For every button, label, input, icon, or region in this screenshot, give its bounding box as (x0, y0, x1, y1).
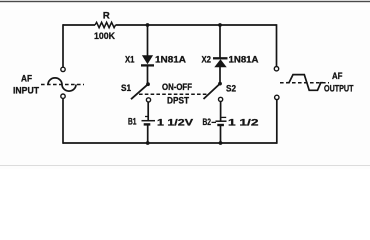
svg-text:S2: S2 (226, 84, 236, 95)
svg-text:INPUT: INPUT (13, 86, 39, 97)
mechanical linkage dashed line DPST (139, 93, 208, 95)
switch S1 arm (131, 84, 148, 99)
input sine waveform (48, 78, 76, 91)
output signal axis dashed line (280, 82, 329, 84)
input terminal top (61, 67, 65, 71)
wire left vertical from top rail to input terminal (62, 24, 64, 67)
svg-text:1 1/2V: 1 1/2V (157, 118, 194, 129)
diode X1 (cathode down) (142, 55, 153, 64)
battery B2 negative plate (217, 124, 224, 126)
junction node at B2 / bottom rail (219, 141, 223, 145)
switch S2 pivot dot (218, 82, 222, 86)
svg-text:X2: X2 (202, 55, 212, 66)
svg-text:R: R (103, 11, 110, 22)
wire from B2 to bottom rail (220, 125, 222, 143)
wire right vertical from output terminal to bottom rail (276, 100, 278, 144)
junction node at R / X1 (146, 23, 150, 27)
wire from X2 anode to switch S2 (219, 67, 221, 83)
svg-text:S1: S1 (121, 83, 132, 94)
wire X1 branch from top rail to diode (147, 25, 149, 56)
wire X2 branch from top rail to diode (219, 25, 221, 58)
svg-text:AF: AF (21, 74, 32, 85)
wire from B1 to bottom rail (147, 124, 149, 143)
battery B1 positive plate (142, 120, 156, 122)
battery B2 polarity plus tick (221, 116, 226, 118)
switch S1 pivot dot (146, 82, 150, 86)
switch S2 arm (204, 84, 221, 99)
wire from X1 cathode to switch S1 (147, 65, 149, 83)
svg-text:1 1/2: 1 1/2 (228, 118, 259, 129)
svg-text:1N81A: 1N81A (229, 55, 259, 66)
input signal axis dashed line (41, 84, 84, 86)
wire right vertical from top rail to output terminal (276, 24, 278, 66)
output terminal top (274, 67, 278, 71)
svg-text:ON-OFF: ON-OFF (162, 82, 192, 93)
wire top rail left segment (63, 24, 95, 26)
svg-text:100K: 100K (94, 31, 115, 42)
battery B1 polarity plus tick (145, 116, 149, 118)
page edge line top (0, 1, 370, 2)
wire top rail middle segment (116, 24, 277, 26)
battery B1 negative plate (144, 123, 151, 125)
wire from S2 contact to battery B2 (220, 102, 222, 122)
switch S1 contact terminal (146, 98, 150, 102)
svg-text:DPST: DPST (167, 96, 189, 107)
junction node at top rail / X2 (218, 23, 222, 27)
svg-text:OUTPUT: OUTPUT (324, 84, 354, 95)
svg-text:AF: AF (332, 71, 343, 82)
page edge line bottom (0, 165, 370, 166)
output clipped waveform (287, 75, 324, 91)
wire bottom rail (63, 142, 277, 144)
svg-text:B2: B2 (203, 117, 212, 128)
switch S2 contact terminal (219, 97, 223, 101)
battery B2 positive plate (216, 120, 227, 122)
leader dash after B2 (212, 121, 217, 123)
svg-text:B1: B1 (128, 117, 137, 128)
junction node at B1 / bottom rail (146, 141, 150, 145)
input terminal bottom (61, 94, 65, 98)
resistor R (95, 22, 116, 27)
output terminal bottom (275, 95, 279, 99)
diode X2 (cathode up) (213, 57, 228, 59)
svg-text:1N81A: 1N81A (155, 55, 186, 66)
wire left vertical from input terminal to bottom rail (62, 98, 64, 143)
wire from S1 contact to battery B1 (147, 102, 149, 121)
svg-text:X1: X1 (125, 55, 135, 66)
